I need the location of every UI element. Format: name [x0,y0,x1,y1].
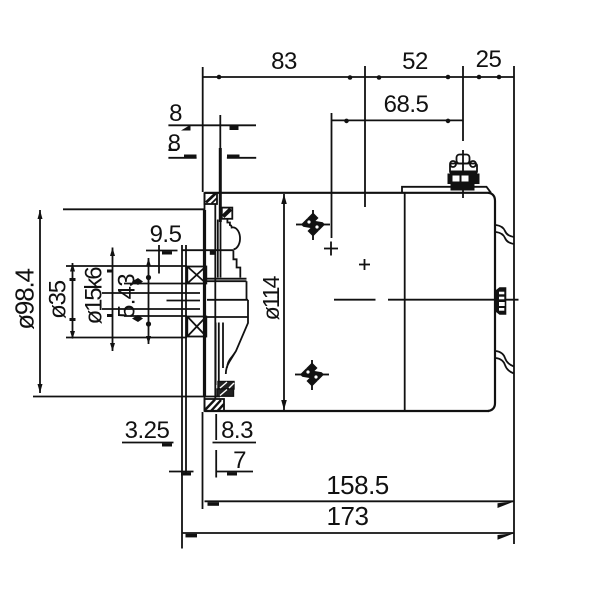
svg-text:5.43: 5.43 [114,274,141,318]
vertical lines below flange [182,245,216,549]
svg-text:8: 8 [169,100,182,127]
keyway line [167,300,201,302]
extension line left (flange face) [202,67,204,192]
through-bolt head upper [296,210,330,240]
svg-text:68.5: 68.5 [384,91,429,118]
svg-text:83: 83 [271,48,297,75]
label 8 lower [168,149,177,151]
housing joint line [404,193,406,411]
svg-text:ø114: ø114 [258,275,284,320]
rear collar strip [402,187,491,193]
dimension diameter 15k6 [112,248,114,352]
dimension 5.43 [148,258,150,344]
bearing upper [187,266,206,284]
motor body outline [205,187,496,411]
svg-text:ø15k6: ø15k6 [81,267,108,325]
svg-text:8: 8 [168,130,181,157]
center cross mark 1 [324,242,338,256]
svg-text:ø98.4: ø98.4 [10,269,40,330]
bearing lower [187,317,206,337]
center cross mark 2 [359,259,370,270]
hub middle section [207,300,248,317]
svg-text:25: 25 [476,46,502,73]
svg-text:ø35: ø35 [45,280,72,319]
dimension diameter 114 [283,194,285,410]
dimension 7 [217,471,253,473]
dimension 8.3 [213,442,257,444]
extension line 52/25 boundary (terminal stud axis) [462,66,464,141]
rear clip upper [496,225,514,244]
dimension 8 (upper) [168,124,256,126]
dimension 158.5 [205,500,515,502]
hub washer lines [182,249,234,251]
svg-text:52: 52 [402,48,428,75]
svg-text:3.25: 3.25 [125,417,170,444]
through-bolt head lower [295,360,329,390]
svg-text:7: 7 [233,447,246,474]
dimension 3.25 [122,443,194,472]
dimension 8 (lower) [168,157,256,159]
flange hatch bottom [205,399,225,411]
extension line 9.5 left [158,245,160,274]
dimension diameter 35 [66,263,187,339]
dimension 68.5 [332,113,464,238]
drive-end contour lower [216,317,248,385]
extension line 83/52 boundary [364,66,366,207]
flange plate [205,193,225,411]
terminal stud on top [450,155,477,174]
flange hatch top [205,193,218,204]
svg-text:158.5: 158.5 [326,470,389,500]
dimension 83/52/25 chain line [203,76,514,78]
key edge thick line [219,115,221,222]
dimension 9.5 [146,250,178,252]
washer junction blob [210,251,215,255]
rear terminal block right [496,287,506,314]
stud axis through terminal [462,150,464,198]
rear clip lower [496,351,514,374]
svg-text:173: 173 [327,501,369,531]
arrow dots on 83/52/25 chain [217,75,222,80]
extension line right end 173 [513,66,515,544]
shaft outline [102,250,234,316]
dimension 173 [182,532,514,534]
svg-text:9.5: 9.5 [150,221,182,248]
dimension diameter 98.4 [33,209,220,396]
drive-end contour upper [207,208,247,300]
center line [334,299,519,301]
svg-text:8.3: 8.3 [221,417,253,444]
